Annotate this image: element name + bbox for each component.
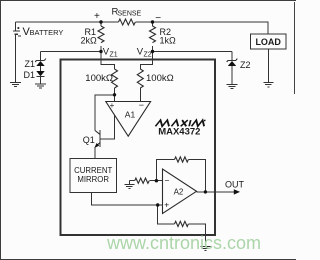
- svg-text:−: −: [165, 176, 170, 186]
- svg-text:Z1: Z1: [110, 51, 118, 58]
- svg-text:2kΩ: 2kΩ: [81, 36, 98, 46]
- svg-text:www.cntronics.com: www.cntronics.com: [106, 233, 261, 253]
- svg-text:1kΩ: 1kΩ: [160, 36, 177, 46]
- svg-text:MIRROR: MIRROR: [77, 175, 109, 184]
- svg-text:A2: A2: [174, 187, 184, 196]
- svg-text:Q1: Q1: [83, 135, 95, 145]
- svg-text:+: +: [164, 200, 169, 210]
- svg-text:100kΩ: 100kΩ: [85, 73, 113, 84]
- svg-text:+: +: [94, 11, 100, 22]
- svg-text:100kΩ: 100kΩ: [146, 73, 174, 84]
- svg-text:Z1: Z1: [25, 59, 36, 69]
- svg-text:Z2: Z2: [240, 60, 251, 70]
- svg-text:−: −: [139, 100, 144, 110]
- svg-text:−: −: [155, 13, 161, 24]
- svg-text:A1: A1: [125, 110, 136, 120]
- svg-text:MAX4372: MAX4372: [158, 127, 200, 138]
- svg-text:BATTERY: BATTERY: [30, 28, 64, 37]
- svg-text:SENSE: SENSE: [118, 11, 142, 18]
- svg-text:CURRENT: CURRENT: [74, 166, 112, 175]
- svg-text:LOAD: LOAD: [255, 37, 281, 47]
- svg-text:+: +: [110, 101, 115, 110]
- svg-text:D1: D1: [24, 70, 36, 80]
- svg-text:Z2: Z2: [144, 51, 152, 58]
- svg-text:OUT: OUT: [225, 180, 245, 190]
